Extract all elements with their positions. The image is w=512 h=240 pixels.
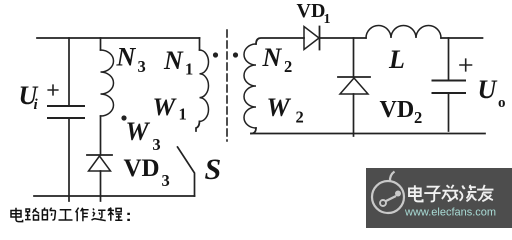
- svg-text:2: 2: [296, 108, 304, 127]
- svg-text:VD: VD: [297, 0, 326, 22]
- svg-text:2: 2: [414, 108, 422, 127]
- svg-text:1: 1: [185, 60, 193, 79]
- svg-text:N: N: [116, 43, 137, 72]
- svg-text:2: 2: [284, 57, 292, 76]
- svg-text:i: i: [34, 97, 39, 113]
- svg-text:N: N: [262, 43, 283, 72]
- svg-text:1: 1: [179, 105, 187, 124]
- svg-text:L: L: [388, 45, 405, 74]
- svg-text:W: W: [267, 93, 292, 122]
- svg-text:U: U: [478, 75, 498, 104]
- svg-text:W: W: [153, 92, 178, 121]
- svg-text:o: o: [498, 95, 506, 111]
- svg-text:S: S: [205, 153, 222, 186]
- svg-text:VD: VD: [124, 155, 160, 182]
- svg-text:W: W: [126, 117, 151, 146]
- svg-text:3: 3: [162, 171, 170, 190]
- svg-text:www.elecfans.com: www.elecfans.com: [404, 207, 496, 219]
- svg-text:3: 3: [138, 57, 146, 76]
- svg-text:3: 3: [152, 135, 160, 154]
- svg-text:N: N: [163, 46, 184, 75]
- svg-text:VD: VD: [380, 97, 415, 123]
- svg-text:1: 1: [324, 12, 331, 27]
